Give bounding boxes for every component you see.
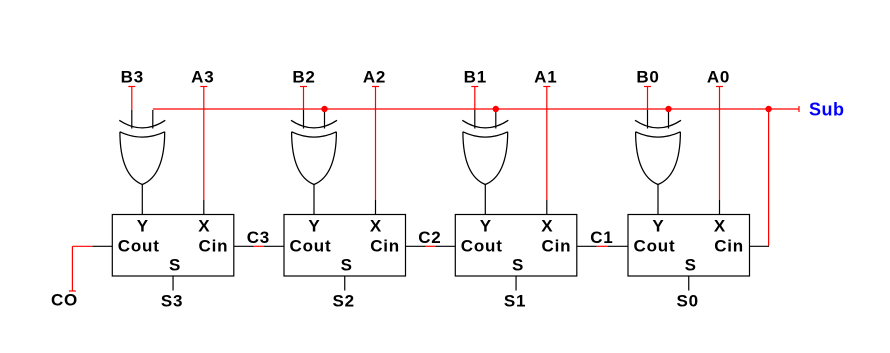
XOR U3 right input pin stub (Sub tap) (495, 110, 497, 129)
XOR U2 left input pin stub (303, 110, 305, 129)
XOR U1 right input pin stub (Sub tap) (152, 110, 154, 129)
svg-text:B2: B2 (292, 68, 315, 87)
terminal T-bar A0 (716, 86, 723, 88)
adder FA4 Cout pin stub (608, 245, 628, 247)
svg-text:A0: A0 (707, 68, 730, 87)
wire B1 to XOR input (474, 87, 476, 111)
XOR gate U1 (inputs B3 and Sub, output to Y) (119, 120, 165, 128)
wire Cout to CO terminal (vertical) (71, 246, 73, 291)
wire Sub line (horizontal bus from XOR U1 tap to Sub terminal) (153, 108, 799, 110)
terminal T-bar B3 (128, 86, 135, 88)
terminal T-bar A3 (200, 86, 207, 88)
terminal T-bar A2 (372, 86, 379, 88)
svg-text:Cin: Cin (199, 237, 229, 256)
adder FA1 X pin stub (203, 200, 205, 215)
svg-text:A3: A3 (191, 68, 214, 87)
XOR U4 left input pin stub (647, 110, 649, 129)
adder FA2 S pin stub (344, 276, 346, 291)
wire XOR U2 output to adder Y pin (313, 185, 315, 215)
wire C2 (carry between FA3 and FA2) (426, 245, 436, 247)
svg-text:X: X (541, 216, 553, 235)
wire B2 to XOR input (303, 87, 305, 111)
full adder FA1 body (112, 215, 234, 277)
svg-text:Y: Y (137, 216, 149, 235)
wire A0 to adder X pin (719, 87, 721, 201)
adder FA2 Cout pin stub (264, 245, 284, 247)
svg-text:Sub: Sub (809, 100, 845, 120)
junction dot on Sub line at XOR U4 tap (665, 106, 671, 112)
svg-text:S: S (341, 256, 353, 275)
svg-text:X: X (370, 216, 382, 235)
adder FA3 S pin stub (515, 276, 517, 291)
junction dot on Sub line at FA4 Cin riser (765, 106, 771, 112)
wire C3 (carry between FA2 and FA1) (254, 245, 264, 247)
XOR gate U3 (inputs B1 and Sub, output to Y) (462, 120, 508, 128)
svg-text:Y: Y (480, 216, 492, 235)
adder FA1 S pin stub (172, 276, 174, 291)
XOR gate U2 (inputs B2 and Sub, output to Y) (291, 120, 337, 128)
svg-text:C1: C1 (590, 228, 613, 247)
svg-text:Cin: Cin (542, 237, 572, 256)
svg-text:S3: S3 (161, 292, 183, 311)
svg-text:X: X (714, 216, 726, 235)
full adder FA3 body (455, 215, 577, 277)
terminal T-bar Sub (798, 106, 800, 112)
wire B3 to XOR input (131, 87, 133, 111)
svg-text:S1: S1 (504, 292, 526, 311)
terminal T-bar B0 (644, 86, 651, 88)
svg-text:Cin: Cin (370, 237, 400, 256)
adder FA4 S pin stub (688, 276, 690, 291)
svg-text:Cout: Cout (290, 237, 332, 256)
full adder FA2 body (284, 215, 406, 277)
full adder FA4 body (628, 215, 750, 277)
svg-text:CO: CO (51, 291, 78, 310)
svg-text:S: S (685, 256, 697, 275)
adder FA3 Cin pin stub (577, 245, 597, 247)
svg-text:B1: B1 (464, 68, 487, 87)
svg-text:B0: B0 (636, 68, 659, 87)
adder FA4 X pin stub (719, 200, 721, 215)
terminal T-bar B1 (471, 86, 478, 88)
adder FA3 X pin stub (546, 200, 548, 215)
svg-text:S0: S0 (677, 292, 699, 311)
XOR U2 right input pin stub (Sub tap) (324, 110, 326, 129)
adder FA1 Cout pin stub (92, 245, 112, 247)
wire Sub line down to FA4 Cin (vertical riser) (768, 110, 770, 246)
svg-text:C2: C2 (418, 228, 441, 247)
adder FA1 Cin pin stub (234, 245, 254, 247)
wire XOR U1 output to adder Y pin (141, 185, 143, 215)
adder FA4 Cin pin stub (750, 245, 770, 247)
svg-text:A1: A1 (534, 68, 557, 87)
terminal T-bar B2 (300, 86, 307, 88)
svg-text:Cout: Cout (118, 237, 160, 256)
svg-text:B3: B3 (121, 68, 144, 87)
wire Cout to CO terminal (horizontal) (72, 245, 92, 247)
adder FA2 X pin stub (375, 200, 377, 215)
wire A3 to adder X pin (203, 87, 205, 201)
junction dot on Sub line at XOR U2 tap (321, 106, 327, 112)
svg-text:Y: Y (308, 216, 320, 235)
terminal T-bar CO (69, 290, 76, 292)
XOR gate U4 (inputs B0 and Sub, output to Y) (635, 120, 681, 128)
svg-text:Cout: Cout (634, 237, 676, 256)
svg-text:Cin: Cin (714, 237, 744, 256)
adder FA3 Cout pin stub (435, 245, 455, 247)
XOR U3 left input pin stub (474, 110, 476, 129)
svg-text:S: S (512, 256, 524, 275)
wire C1 (carry between FA4 and FA3) (597, 245, 608, 247)
svg-text:Y: Y (652, 216, 664, 235)
wire XOR U3 output to adder Y pin (484, 185, 486, 215)
terminal T-bar A1 (543, 86, 550, 88)
XOR U4 right input pin stub (Sub tap) (668, 110, 670, 129)
svg-text:S2: S2 (333, 292, 355, 311)
svg-text:S: S (169, 256, 181, 275)
svg-text:C3: C3 (247, 228, 270, 247)
junction dot on Sub line at XOR U3 tap (493, 106, 499, 112)
adder FA2 Cin pin stub (406, 245, 426, 247)
wire B0 to XOR input (647, 87, 649, 111)
wire A2 to adder X pin (375, 87, 377, 201)
wire A1 to adder X pin (546, 87, 548, 201)
XOR U1 left input pin stub (131, 110, 133, 129)
svg-text:X: X (198, 216, 210, 235)
svg-text:A2: A2 (363, 68, 386, 87)
wire XOR U4 output to adder Y pin (657, 185, 659, 215)
svg-text:Cout: Cout (461, 237, 503, 256)
